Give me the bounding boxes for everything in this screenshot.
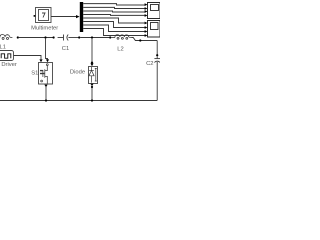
multimeter block: [36, 8, 52, 23]
port dot diode top: [91, 62, 93, 64]
ground bus wire: [0, 100, 157, 102]
demux input arrowhead: [76, 15, 80, 18]
wire multimeter to demux: [51, 16, 77, 18]
demux output wire 5: [83, 18, 146, 23]
node junction above diode: [91, 36, 93, 38]
port dot C1 right: [78, 36, 80, 38]
svg-text:Multimeter: Multimeter: [31, 26, 58, 32]
demux output wire 8: [83, 29, 146, 36]
svg-text:C1: C1: [62, 46, 69, 52]
port dot C1 left: [53, 36, 55, 38]
demux bar: [80, 2, 83, 32]
demux output wire 3: [83, 11, 146, 12]
S1 drain arrowhead: [46, 59, 49, 62]
scope1 input arrowheads: [145, 3, 148, 17]
demux output wire 6: [83, 22, 146, 28]
S1 gate arrowhead: [39, 59, 42, 62]
diode bottom arrowhead: [90, 84, 93, 87]
port dot L1: [17, 36, 19, 38]
bus junction at diode: [91, 99, 93, 101]
diode top arrowhead: [90, 63, 93, 66]
bus junction at S1: [45, 99, 47, 101]
svg-text:C2: C2: [146, 61, 153, 67]
right rail upper wire: [156, 41, 158, 55]
wire diode node down: [91, 38, 93, 62]
scope2 input arrowheads: [145, 22, 148, 37]
demux output wire 4: [83, 14, 146, 17]
wire S1 to bus: [45, 87, 47, 101]
S1 source arrowhead: [44, 85, 47, 88]
wire L2 to right rail with step: [131, 38, 157, 41]
wire node to S1 drain: [46, 38, 48, 59]
multimeter input port dot: [34, 15, 36, 17]
demux output wire 1: [83, 4, 146, 5]
inductor L1 coil: [0, 35, 12, 40]
svg-text:Diode: Diode: [70, 69, 85, 75]
gate driver pulse icon: [1, 54, 11, 58]
capacitor C2: [154, 56, 160, 100]
mosfet S1 icon: [40, 64, 48, 84]
wire diode to bus: [91, 88, 93, 101]
svg-text:L1: L1: [0, 45, 6, 51]
capacitor C1: [58, 35, 79, 41]
port dot C2 top: [156, 54, 158, 56]
multimeter icon glyph: [42, 13, 45, 18]
svg-text:L2: L2: [117, 46, 123, 52]
gate driver block: [0, 51, 14, 61]
wire L1 to C1 with junction: [19, 37, 53, 39]
scope2 screen: [151, 23, 159, 30]
port dot after L2: [139, 39, 141, 41]
demux output wire 7: [83, 25, 146, 32]
node junction above S1: [44, 36, 46, 38]
svg-text:Gate Driver: Gate Driver: [0, 62, 17, 68]
svg-text:S1: S1: [31, 71, 38, 77]
scope1 block: [148, 3, 161, 19]
mosfet S1 block: [39, 63, 53, 85]
scope2 block: [148, 21, 161, 38]
scope1 screen: [151, 5, 159, 11]
wire gate driver to S1 gate: [14, 56, 41, 60]
diode D1 symbol: [89, 67, 97, 83]
port dot diode bottom: [91, 86, 93, 88]
wire C1 to diode node: [80, 37, 109, 39]
inductor L2 coil: [111, 35, 131, 40]
demux output wire 2: [83, 7, 146, 8]
port dot L2 left: [109, 36, 111, 38]
diode block: [89, 67, 98, 84]
